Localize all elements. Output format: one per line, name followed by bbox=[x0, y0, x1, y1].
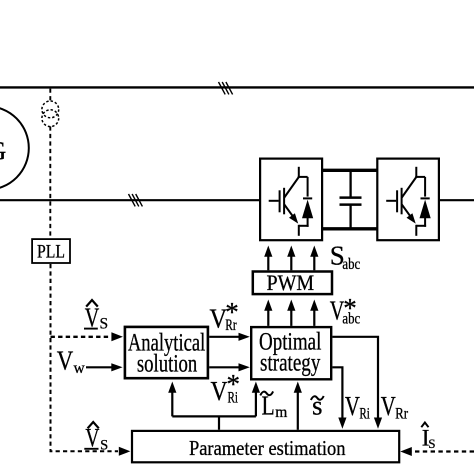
svg-text:V: V bbox=[57, 345, 74, 375]
svg-text:S: S bbox=[428, 436, 435, 451]
svg-text:s: s bbox=[312, 391, 323, 421]
svg-text:abc: abc bbox=[342, 256, 360, 273]
svg-text:V: V bbox=[211, 376, 228, 406]
svg-text:Parameter estimation: Parameter estimation bbox=[189, 436, 346, 460]
svg-text:S: S bbox=[100, 437, 108, 453]
svg-text:G: G bbox=[0, 136, 6, 165]
svg-text:Rr: Rr bbox=[395, 406, 409, 423]
svg-text:L: L bbox=[262, 391, 275, 421]
svg-text:m: m bbox=[275, 404, 287, 421]
svg-text:solution: solution bbox=[137, 350, 198, 377]
svg-text:w: w bbox=[74, 360, 86, 377]
svg-text:PLL: PLL bbox=[37, 241, 65, 262]
svg-text:abc: abc bbox=[342, 311, 360, 328]
svg-text:V: V bbox=[345, 391, 360, 421]
svg-text:V: V bbox=[381, 391, 396, 421]
svg-text:PWM: PWM bbox=[267, 270, 315, 295]
svg-text:Ri: Ri bbox=[359, 406, 370, 423]
svg-text:S: S bbox=[100, 316, 109, 333]
svg-text:Ri: Ri bbox=[228, 390, 239, 407]
svg-text:strategy: strategy bbox=[260, 349, 321, 376]
svg-text:Rr: Rr bbox=[225, 317, 237, 334]
